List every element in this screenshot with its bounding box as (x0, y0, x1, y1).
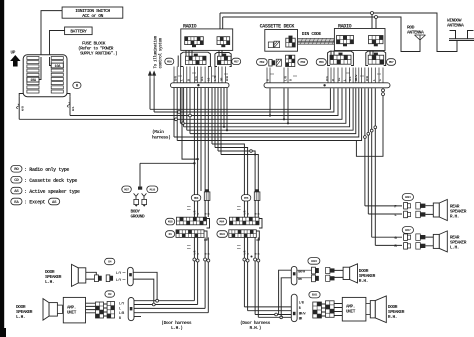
wire illumination 2 down (153, 79, 155, 113)
wire fuse exit right (W/L) (69, 97, 71, 116)
connector D101 (217, 231, 228, 238)
door speaker RH lower coupler (366, 304, 370, 315)
harness connector group D grid (368, 53, 384, 65)
connector M18 (165, 218, 174, 225)
svg-text:L/Y: L/Y (119, 302, 124, 306)
connector M56 right (316, 59, 326, 66)
connector M56 (165, 58, 174, 64)
wires connector row to right bus bar (267, 68, 383, 83)
connector D4 (105, 258, 115, 264)
wire ignition switch to fuse block (41, 11, 62, 57)
wires connector groups to left bus bar (174, 67, 226, 83)
cassette deck connector grid (286, 36, 295, 47)
wire deep tap to channel (182, 88, 198, 160)
svg-text:BR/W: BR/W (354, 74, 358, 81)
wire left bus drop B5 (211, 88, 213, 144)
fuse column right (51, 57, 63, 94)
bracket pin row D1 (204, 231, 207, 240)
wires into group D (366, 51, 386, 66)
illumination arrows (149, 72, 156, 79)
wire run H6 (184, 88, 350, 127)
wires to door speaker RH upper (335, 270, 344, 277)
svg-text:SUPPLY ROUTING”.): SUPPLY ROUTING”.) (80, 51, 117, 56)
rear speaker LH plug pair 1 (404, 234, 411, 241)
rear speaker RH plug pair 1 (404, 203, 411, 210)
DIN code bus (298, 39, 335, 45)
inline connector rear feed 4 (374, 126, 377, 129)
svg-text:M64: M64 (220, 221, 225, 224)
wire labels BR/W BR upper right (298, 270, 305, 282)
wire door LH upper feed 1 (133, 272, 157, 300)
svg-text:L/B: L/B (119, 311, 124, 315)
left black border bar (0, 0, 4, 337)
svg-text:UNIT: UNIT (346, 310, 356, 315)
wire body ground tap (140, 162, 194, 164)
door RH upper connector bar (291, 266, 297, 285)
wires to rear speaker RH (425, 206, 433, 215)
legend EA (11, 198, 22, 205)
connector D3 (105, 291, 115, 297)
inline connector door RH 2 (246, 259, 249, 262)
wire door LH 1 (193, 237, 195, 300)
svg-text:M75: M75 (244, 197, 249, 200)
svg-text:GROUND: GROUND (131, 214, 146, 220)
svg-text:L.H.): L.H.) (171, 325, 183, 331)
harness connector group A grid (186, 54, 207, 65)
svg-text:LG: LG (338, 77, 341, 81)
amp LH connector grid 2 (107, 302, 114, 319)
door RH lower connector bar (291, 294, 297, 322)
wire door RH 3 (254, 237, 256, 314)
body ground plugs (134, 193, 147, 206)
wire left bus drop B7 (217, 88, 219, 151)
wire run H2 (154, 88, 334, 112)
wire fuse exit left (W/B) (18, 97, 20, 120)
wire run H11 (212, 144, 244, 195)
wire right bus drop 270 (269, 88, 271, 115)
junction on left bus bar (197, 84, 199, 86)
wire rear RH minus (368, 213, 402, 215)
connector M57 body ground (122, 186, 132, 193)
connector D1 (165, 231, 174, 238)
door speaker LH lower coupler (57, 305, 62, 314)
pin row M64 (230, 217, 260, 225)
wire labels lower right (299, 301, 306, 321)
wire door LH fan 3 (134, 307, 205, 309)
battery box (65, 27, 93, 35)
bracket pin row D101 (256, 231, 259, 240)
connector M57 (232, 58, 241, 64)
inline connector on H3 (189, 114, 192, 117)
rear speaker LH plug pair 2 (416, 234, 426, 249)
wires door speaker LH upper (86, 272, 97, 279)
inline connector door RH upper 1 (275, 313, 278, 316)
svg-text:: Active speaker type: : Active speaker type (24, 189, 80, 195)
connector grid under cassette (286, 55, 295, 66)
left channel small connector (204, 189, 210, 200)
connector B217 (402, 227, 413, 234)
junction at 284 (283, 118, 285, 120)
wire left channel 4 (207, 88, 209, 195)
svg-text:: Cassette deck type: : Cassette deck type (24, 178, 77, 184)
wire rear LH minus (375, 244, 402, 246)
svg-text:BR: BR (299, 317, 303, 321)
wire run H13 (218, 151, 255, 195)
svg-text:B104: B104 (311, 260, 317, 263)
connector M57 right (387, 59, 396, 66)
junction at 288 (287, 122, 289, 124)
rear speaker RH plug pair 2 (416, 203, 426, 218)
fuse block outline (23, 55, 67, 97)
inline connector door RH 4 (257, 259, 260, 262)
DIN code bus hatching (300, 38, 335, 44)
plug under cassette deck (269, 60, 275, 67)
svg-text:D1: D1 (169, 233, 173, 236)
wire run H9 (174, 88, 359, 137)
svg-text:ANTENNA: ANTENNA (447, 23, 464, 29)
legend CD (11, 176, 22, 183)
svg-text:R/G: R/G (325, 76, 329, 81)
wire run H1 (150, 88, 330, 109)
bottom-left corner foot (0, 328, 6, 337)
To illumination control system note (153, 35, 163, 68)
wire left radio antenna leads up (220, 13, 223, 29)
inline connector door LH 3 (204, 258, 207, 261)
junction on H14 (254, 154, 256, 156)
wire door RH upper feed 1 (279, 270, 292, 314)
wire left channel extra (200, 88, 202, 191)
pin row D1 (176, 230, 204, 238)
wire door LH fan 2 (134, 304, 198, 306)
bracket pin row M64 (259, 219, 262, 229)
wire door LH 3 (204, 237, 206, 308)
wire battery feed inside fuse block (50, 57, 52, 66)
wire door RH fan 4 (258, 316, 291, 318)
wire stub into fuse block left (19, 94, 23, 97)
wire rear LH plus (372, 236, 402, 238)
door LH upper connector bar (128, 267, 134, 286)
wire run H12 (215, 148, 248, 195)
inline connector door LH 1 (193, 258, 196, 261)
svg-text:(Main: (Main (152, 129, 164, 135)
wire ignition feed inside fuse block (39, 57, 41, 80)
tiny labels below pin row D1 (187, 246, 191, 249)
wire run H3 (70, 88, 338, 115)
window antenna label (447, 18, 464, 29)
junction body ground tap (193, 162, 195, 164)
connector M59 (257, 59, 268, 66)
right radio connector A (337, 36, 354, 47)
svg-text:: Except: : Except (24, 200, 46, 206)
svg-text:R.H.: R.H. (359, 278, 368, 284)
svg-text:UNIT: UNIT (67, 311, 77, 316)
wires into group A (178, 50, 210, 66)
inline connector door LH 2 (196, 259, 199, 262)
svg-text:M66: M66 (194, 197, 199, 200)
wire door LH 2 (197, 237, 199, 304)
wire antenna feeder down-left (356, 96, 383, 157)
fuse 10A right highlighted (51, 63, 63, 69)
left radio box (181, 29, 233, 51)
wire rear RH plus (365, 205, 402, 207)
harness connector group B grid (218, 54, 232, 65)
door speaker LH upper label (45, 269, 62, 285)
wire antenna feeder lower run (223, 16, 375, 18)
break squiggle right wire (67, 103, 70, 108)
cassette deck inner plug (268, 41, 279, 47)
wire left bus drop A4 (183, 88, 185, 127)
wire left bus drop A2 (176, 88, 178, 141)
wire door RH upper feed 2 (281, 278, 291, 318)
door speaker RH lower symbol (370, 296, 386, 323)
wire illumination 1 down (149, 79, 151, 110)
wire antenna feeder upper run (220, 12, 371, 14)
junction B10 (226, 129, 228, 131)
plug pair door speaker RH upper (312, 267, 319, 274)
arrow marks under cassette row (270, 73, 381, 76)
inline connector on H5 (181, 122, 184, 125)
right radio box (334, 29, 385, 51)
door harness RH note (240, 320, 271, 331)
door speaker RH lower label (388, 304, 405, 320)
tiny labels below pin row D101 (237, 246, 241, 249)
wires into group C (328, 51, 354, 66)
svg-text:M57: M57 (389, 61, 394, 64)
svg-text:BR/W: BR/W (299, 311, 306, 315)
wire run H14 (221, 155, 258, 195)
svg-text:ACC or ON: ACC or ON (82, 13, 103, 19)
fuse block text (78, 41, 117, 57)
wire left bus drop B9 (223, 88, 225, 127)
wire door RH 1 (243, 237, 245, 307)
inline connector rear feed 1 (364, 136, 367, 139)
svg-text:: Radio only type: : Radio only type (24, 167, 69, 173)
wire door LH upper feed 2 (133, 279, 154, 304)
wire run H7 (187, 88, 353, 130)
inline connector door LH upper 2 (152, 303, 155, 306)
main harness note (152, 129, 170, 140)
connector B204 (402, 194, 413, 201)
svg-text:M56: M56 (319, 61, 324, 64)
plug pair 2 door speaker RH upper (326, 267, 335, 281)
svg-text:D3: D3 (108, 293, 112, 296)
right radio connector B (369, 36, 384, 47)
amp unit LH box (63, 297, 85, 323)
wire run H10 (177, 88, 361, 140)
wires amp LH to grid 1 (86, 303, 96, 313)
hatched plug under cassette (276, 59, 281, 66)
wire labels lower left (119, 302, 124, 320)
wires into group B (215, 50, 231, 66)
wire rear feed 2 (367, 88, 369, 214)
svg-text:M59: M59 (260, 61, 265, 64)
svg-text:BATTERY: BATTERY (70, 29, 87, 35)
inline connector door RH upper 2 (280, 316, 283, 319)
svg-text:R.H.): R.H.) (250, 325, 262, 331)
door speaker LH upper symbol (72, 264, 86, 286)
wire left bus drop A5 (186, 88, 188, 131)
arrow marks under left radio (178, 73, 228, 76)
wire door LH stub 5 (134, 316, 141, 318)
left radio connector A (185, 37, 204, 47)
junction B9 (223, 126, 225, 128)
svg-text:D4: D4 (108, 261, 112, 264)
break squiggle left wire (16, 104, 19, 109)
window antenna symbol (449, 31, 474, 41)
wire body ground drop (139, 163, 141, 186)
wire rear feed 1 (364, 88, 366, 206)
svg-text:L.H.: L.H. (16, 314, 25, 320)
connector M116 (147, 186, 158, 193)
svg-text:W/B: W/B (20, 106, 24, 111)
wires between amp LH grids (104, 304, 108, 316)
door harness LH note (161, 320, 192, 331)
wire left bus drop B8 (220, 88, 222, 155)
UP arrow (10, 55, 20, 67)
rear speaker RH label (450, 203, 467, 219)
svg-text:UP: UP (11, 51, 16, 56)
door speaker LH lower label (16, 304, 33, 320)
wire to window antenna (374, 13, 458, 52)
amp unit RH box (342, 297, 366, 321)
antenna feeder connector circle lower (382, 93, 385, 96)
svg-text:(Door harness: (Door harness (161, 320, 192, 326)
body ground text (131, 209, 146, 220)
wire battery to fuse block (50, 31, 65, 58)
svg-text:M58: M58 (300, 61, 305, 64)
svg-text:M116: M116 (150, 188, 156, 191)
wire left channel 1 (193, 88, 195, 195)
wire run H5 (180, 88, 346, 123)
plug pair door speaker LH upper (95, 275, 102, 282)
svg-text:M57: M57 (234, 61, 239, 64)
svg-text:control system: control system (158, 37, 163, 68)
junction on right bus bar (323, 84, 325, 86)
amp RH connector grid 1 (313, 302, 322, 318)
inline connector on H4 (175, 118, 178, 121)
ignition switch box (62, 7, 123, 19)
antenna connector circle 2 (375, 16, 378, 19)
inline connector on H13 (250, 150, 253, 153)
wire door LH fan 4 (134, 312, 208, 314)
wire rear feed 3 (371, 88, 373, 237)
wire labels L/Y upper left (116, 271, 126, 282)
rod antenna label (407, 25, 424, 36)
legend RO (11, 166, 22, 173)
fuse 10A left highlighted (27, 77, 39, 83)
svg-text:BODY: BODY (131, 209, 141, 215)
inline connector door RH 3 (254, 258, 257, 261)
legend AS (11, 187, 22, 194)
svg-text:B101: B101 (312, 294, 318, 297)
wire door RH 4 (257, 237, 259, 317)
wires amp RH grids to amp (334, 304, 342, 316)
junction deep tap (196, 158, 198, 160)
body ground inline connector (138, 187, 142, 190)
rear speaker RH symbol (433, 200, 447, 221)
door speaker RH upper symbol (343, 264, 357, 283)
svg-text:R.H.: R.H. (388, 314, 397, 320)
rod antenna symbol (415, 35, 426, 40)
pin row D101 (229, 230, 256, 238)
svg-text:M18: M18 (168, 221, 173, 224)
tiny labels above pin row 1 left (187, 207, 191, 210)
door speaker RH upper label (359, 268, 376, 284)
svg-text:W/L: W/L (71, 106, 75, 111)
junction at 270 (269, 114, 271, 116)
inline connector rear feed 2 (367, 132, 370, 135)
wire rear feed 4 (374, 88, 376, 245)
wire left bus drop B10 (226, 88, 228, 131)
svg-text:R.H.: R.H. (450, 213, 459, 219)
svg-text:R/L: R/L (348, 76, 352, 81)
right harness bus bar (264, 83, 390, 88)
connector B104 (308, 258, 320, 265)
bracket pin row M18 (207, 219, 210, 229)
amp LH connector grid 1 (96, 302, 104, 318)
wire door RH 2 (247, 237, 249, 310)
wire door RH fan 2 (248, 310, 292, 312)
junction door RH bundle (251, 256, 253, 258)
connector M66 left channel (191, 195, 201, 201)
cassette deck box (265, 30, 298, 52)
wire stub into fuse block right (67, 94, 70, 97)
svg-text:L/Y: L/Y (116, 271, 121, 275)
inline connector door LH upper 1 (156, 299, 159, 302)
svg-text:DIN CODE: DIN CODE (302, 31, 322, 37)
door speaker LH lower symbol (43, 299, 57, 321)
wire door RH fan 1 (244, 306, 291, 308)
wire door LH fan 1 (134, 300, 194, 302)
harness connector group C grid (330, 53, 351, 65)
svg-text:D101: D101 (220, 233, 226, 236)
svg-text:L.H.: L.H. (450, 245, 459, 251)
wire run H8 (190, 88, 356, 133)
inline connector rear feed 3 (370, 129, 373, 132)
svg-text:L/B: L/B (299, 301, 304, 305)
connector B101 (309, 292, 320, 298)
inline connector on H2 (178, 111, 181, 114)
pin row M18 (177, 217, 207, 225)
svg-text:B204: B204 (405, 196, 411, 199)
wire left bus drop A3 (179, 88, 181, 124)
wires bar to plugs RH upper (297, 270, 312, 278)
rear speaker LH symbol (433, 231, 447, 252)
svg-text:L.H.: L.H. (45, 279, 54, 285)
wire to rod antenna (378, 17, 421, 52)
inline connector door LH 4 (207, 259, 210, 262)
fuse column left (27, 57, 39, 94)
svg-text:B217: B217 (405, 229, 411, 232)
wire right bus drop 284 (283, 88, 285, 119)
wires right channel to pin row 1 (244, 200, 258, 217)
wire left channel 2 (197, 88, 199, 195)
wire run H4 (19, 88, 342, 119)
wire right radio antenna leads up (372, 15, 376, 29)
svg-text:M56: M56 (167, 61, 172, 64)
svg-text:To illumination: To illumination (153, 35, 158, 68)
wire left bus drop B6 (214, 88, 216, 148)
connector M64 (217, 218, 227, 225)
svg-text:L/Y: L/Y (116, 278, 121, 282)
svg-text:M57: M57 (124, 188, 129, 191)
right channel small connector (254, 189, 260, 200)
connector M58 (298, 59, 308, 66)
wire right bus drop 288 (287, 88, 289, 123)
wire door LH 4 (207, 237, 209, 312)
antenna connector circle 1 (371, 12, 374, 15)
inline connector door RH 1 (243, 258, 246, 261)
